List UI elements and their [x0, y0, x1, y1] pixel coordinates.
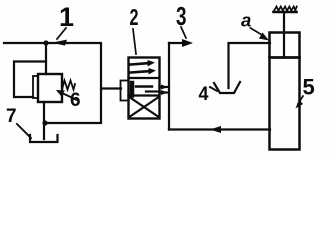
directional valve 2: outer body: [129, 58, 160, 119]
label 1 leader arrow: [52, 28, 67, 46]
wire: return line to cylinder bottom with flow arrow: [169, 126, 270, 133]
drain funnel 4: [214, 82, 240, 93]
directional valve 2: top position arrows: [131, 60, 157, 75]
hydraulic cylinder 5: rod: [283, 12, 285, 58]
directional valve 2: left port block: [121, 81, 133, 101]
node: supply junction at relief-valve tap: [43, 40, 48, 45]
label 7 leader: [17, 124, 31, 138]
svg-text:6: 6: [70, 90, 81, 111]
wire: line 3 stub with flow arrow: [169, 39, 193, 47]
wire: valve right riser: [168, 43, 170, 130]
tank 7 (open reservoir): [30, 135, 58, 142]
pressure relief valve 6: spring: [62, 81, 75, 90]
label 2 leader: [133, 29, 136, 54]
wire: supply line from left edge, right corner down, bottom run back to junction: [4, 43, 101, 123]
pressure relief valve 6: body: [38, 74, 62, 102]
pressure relief valve 6: adjustment arrow: [56, 90, 77, 100]
directional valve 2: right port stubs with flow arrows: [160, 85, 170, 96]
label 4 leader tick: [210, 87, 217, 91]
svg-text:4: 4: [199, 84, 209, 105]
label a leader arrow: [251, 28, 270, 41]
svg-text:1: 1: [59, 2, 74, 32]
svg-text:2: 2: [130, 4, 139, 30]
wire: top line to cylinder with drain branch: [229, 43, 271, 88]
hydraulic cylinder 5: body: [270, 33, 300, 150]
fixed support anchor: [274, 7, 297, 13]
label 3 leader: [181, 27, 186, 38]
wire: pilot line loop: [14, 62, 46, 98]
svg-text:5: 5: [303, 75, 315, 100]
svg-text:7: 7: [6, 106, 17, 127]
svg-text:3: 3: [176, 1, 187, 31]
directional valve 2: centre position blocked ports: [136, 87, 158, 92]
label 5 leader arrow: [296, 96, 304, 109]
hydraulic cylinder 5: piston: [270, 56, 300, 59]
pressure relief valve 6: pilot chamber box: [33, 76, 38, 98]
wire: valve feed line P: [101, 87, 121, 89]
svg-text:a: a: [241, 10, 251, 31]
directional valve 2: section dividers: [129, 77, 160, 79]
wire: relief valve inlet drop: [45, 43, 47, 74]
directional valve 2: cross position X: [130, 98, 158, 117]
wire: relief valve outlet to tank: [43, 102, 45, 139]
node: junction on return bottom run: [42, 120, 47, 125]
